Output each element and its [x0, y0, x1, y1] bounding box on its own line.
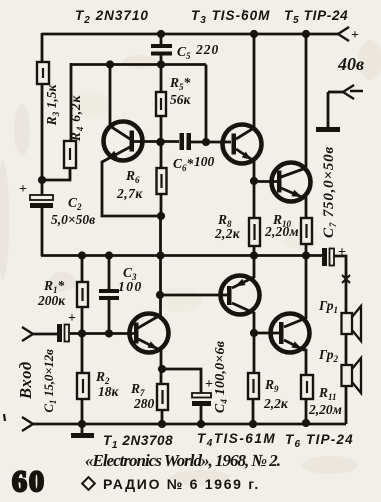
- svg-text:220: 220: [195, 42, 219, 57]
- svg-text:18к: 18к: [98, 384, 120, 399]
- svg-text:56к: 56к: [170, 92, 192, 107]
- svg-text:40в: 40в: [337, 54, 364, 74]
- svg-text:2,20м: 2,20м: [264, 224, 299, 239]
- svg-text:+: +: [19, 182, 27, 197]
- svg-text:+: +: [68, 311, 76, 326]
- svg-text:Вход: Вход: [16, 361, 35, 400]
- svg-text:R3 1,5к: R3 1,5к: [44, 84, 61, 127]
- svg-text:2,2к: 2,2к: [263, 396, 289, 411]
- svg-text:+: +: [351, 28, 359, 43]
- svg-text:100: 100: [194, 154, 215, 169]
- svg-text:2,7к: 2,7к: [116, 186, 143, 201]
- svg-text:+: +: [205, 377, 213, 392]
- svg-text:«Electronics World», 1968, № 2: «Electronics World», 1968, № 2.: [85, 451, 280, 470]
- svg-text:R4 6,2к: R4 6,2к: [68, 95, 85, 143]
- svg-text:РАДИО № 6 1969 г.: РАДИО № 6 1969 г.: [103, 476, 260, 492]
- svg-text:280: 280: [133, 396, 155, 411]
- svg-text:2,20м: 2,20м: [308, 402, 342, 417]
- svg-text:2,2к: 2,2к: [214, 226, 241, 241]
- svg-text:60: 60: [12, 465, 46, 498]
- svg-text:+: +: [338, 245, 346, 260]
- svg-text:200к: 200к: [37, 293, 66, 308]
- svg-text:5,0×50в: 5,0×50в: [51, 212, 95, 227]
- svg-text:100: 100: [118, 279, 143, 294]
